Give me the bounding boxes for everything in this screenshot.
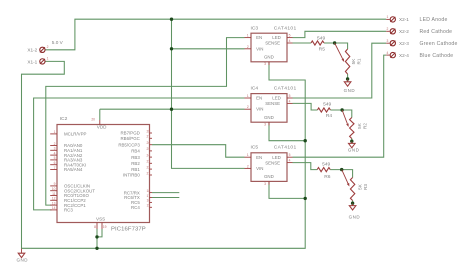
svg-text:VIN: VIN <box>256 46 263 51</box>
svg-text:549: 549 <box>323 102 331 108</box>
svg-text:4: 4 <box>289 159 291 163</box>
svg-text:3: 3 <box>54 147 56 151</box>
svg-text:1: 1 <box>386 15 388 19</box>
svg-text:CAT4101: CAT4101 <box>274 25 297 31</box>
svg-text:GND: GND <box>348 147 360 152</box>
svg-text:14: 14 <box>52 206 56 210</box>
svg-text:RA5/AN4: RA5/AN4 <box>64 167 83 172</box>
svg-text:4: 4 <box>54 151 56 155</box>
svg-text:7: 7 <box>54 166 56 170</box>
svg-text:RB7/PGD: RB7/PGD <box>121 131 140 136</box>
svg-text:IC5: IC5 <box>251 144 259 150</box>
svg-text:SENSE: SENSE <box>265 160 280 165</box>
svg-text:SENSE: SENSE <box>265 101 280 106</box>
svg-text:VSS: VSS <box>96 216 105 221</box>
svg-text:R4: R4 <box>326 113 333 119</box>
svg-text:LED: LED <box>272 155 281 160</box>
svg-text:R5: R5 <box>319 47 326 53</box>
svg-text:2: 2 <box>247 105 249 109</box>
svg-text:3: 3 <box>264 62 266 66</box>
svg-text:EN: EN <box>256 155 262 160</box>
svg-text:21: 21 <box>147 171 151 175</box>
svg-text:GND: GND <box>344 88 356 93</box>
svg-text:549: 549 <box>317 35 325 41</box>
svg-text:16: 16 <box>147 199 151 203</box>
svg-text:LED Anode: LED Anode <box>420 17 448 23</box>
svg-text:RB5/CCP3: RB5/CCP3 <box>118 142 140 147</box>
svg-text:RC4: RC4 <box>131 205 140 210</box>
svg-text:X1-1: X1-1 <box>27 59 37 64</box>
svg-text:17: 17 <box>147 194 151 198</box>
svg-text:549: 549 <box>322 161 330 167</box>
svg-text:1: 1 <box>47 57 49 61</box>
svg-text:GND: GND <box>17 257 29 262</box>
svg-text:RB2: RB2 <box>131 161 140 166</box>
svg-text:RB1: RB1 <box>131 167 140 172</box>
svg-text:R6: R6 <box>324 174 331 180</box>
svg-text:24: 24 <box>147 153 151 157</box>
svg-text:3: 3 <box>386 39 388 43</box>
svg-text:GND: GND <box>349 215 361 220</box>
svg-text:GND: GND <box>264 174 274 179</box>
svg-text:LED: LED <box>272 35 281 40</box>
svg-text:13: 13 <box>52 201 56 205</box>
svg-text:Blue Cathode: Blue Cathode <box>420 53 454 59</box>
svg-text:28: 28 <box>147 129 151 133</box>
svg-text:2: 2 <box>386 27 388 31</box>
svg-text:2: 2 <box>54 142 56 146</box>
svg-text:SENSE: SENSE <box>265 41 280 46</box>
svg-text:MCLR/VPP: MCLR/VPP <box>64 132 87 137</box>
svg-text:RB3: RB3 <box>131 155 140 160</box>
svg-text:CAT4101: CAT4101 <box>274 86 297 92</box>
svg-text:1: 1 <box>247 153 249 157</box>
svg-text:GND: GND <box>264 115 274 120</box>
svg-text:3: 3 <box>264 123 266 127</box>
svg-text:23: 23 <box>147 160 151 164</box>
svg-text:11: 11 <box>52 192 56 196</box>
svg-text:RB4: RB4 <box>131 149 140 154</box>
svg-text:18: 18 <box>147 189 151 193</box>
svg-text:5: 5 <box>54 156 56 160</box>
svg-text:10: 10 <box>52 187 56 191</box>
svg-text:5: 5 <box>289 94 291 98</box>
svg-text:6: 6 <box>54 161 56 165</box>
svg-text:1: 1 <box>54 130 56 134</box>
svg-text:1: 1 <box>247 34 249 38</box>
svg-text:5: 5 <box>289 153 291 157</box>
svg-text:X2-2: X2-2 <box>399 29 409 34</box>
svg-text:PIC16F737P: PIC16F737P <box>111 227 146 233</box>
svg-text:INT/RB0: INT/RB0 <box>123 173 140 178</box>
svg-text:2: 2 <box>47 45 49 49</box>
svg-text:4: 4 <box>289 39 291 43</box>
svg-text:19: 19 <box>103 225 107 229</box>
svg-text:1: 1 <box>247 94 249 98</box>
svg-text:LED: LED <box>272 96 281 101</box>
svg-text:GND: GND <box>264 55 274 60</box>
svg-text:EN: EN <box>256 96 262 101</box>
svg-text:X1-2: X1-2 <box>27 48 37 53</box>
svg-text:VDD: VDD <box>97 125 107 130</box>
svg-text:5: 5 <box>289 34 291 38</box>
svg-text:Green Cathode: Green Cathode <box>420 41 458 47</box>
svg-text:R3: R3 <box>363 184 368 190</box>
svg-text:VIN: VIN <box>256 107 263 112</box>
svg-text:4: 4 <box>386 51 388 55</box>
svg-text:5.0 V: 5.0 V <box>52 40 64 45</box>
svg-text:22: 22 <box>147 165 151 169</box>
svg-text:RB6/PGC: RB6/PGC <box>121 136 140 141</box>
svg-text:20: 20 <box>91 118 95 122</box>
svg-text:EN: EN <box>256 35 262 40</box>
svg-text:26: 26 <box>147 141 151 145</box>
svg-text:12: 12 <box>52 197 56 201</box>
svg-text:X2-4: X2-4 <box>399 53 409 58</box>
svg-text:25: 25 <box>147 147 151 151</box>
svg-text:X2-1: X2-1 <box>399 17 409 22</box>
svg-text:8: 8 <box>94 225 96 229</box>
svg-text:IC2: IC2 <box>60 116 68 122</box>
svg-text:Red Cathode: Red Cathode <box>420 29 453 35</box>
svg-text:2: 2 <box>247 45 249 49</box>
svg-text:X2-3: X2-3 <box>399 41 409 46</box>
svg-text:R2: R2 <box>362 123 367 129</box>
svg-text:IC3: IC3 <box>251 25 259 31</box>
svg-text:27: 27 <box>147 135 151 139</box>
svg-text:15: 15 <box>147 204 151 208</box>
svg-text:CAT4101: CAT4101 <box>274 144 297 150</box>
svg-text:9: 9 <box>54 182 56 186</box>
svg-text:3: 3 <box>264 182 266 186</box>
svg-text:RC3: RC3 <box>64 208 73 213</box>
svg-text:R1: R1 <box>356 58 361 64</box>
svg-text:IC4: IC4 <box>251 86 259 92</box>
svg-text:2: 2 <box>247 164 249 168</box>
svg-text:4: 4 <box>289 99 291 103</box>
svg-text:VIN: VIN <box>256 166 263 171</box>
